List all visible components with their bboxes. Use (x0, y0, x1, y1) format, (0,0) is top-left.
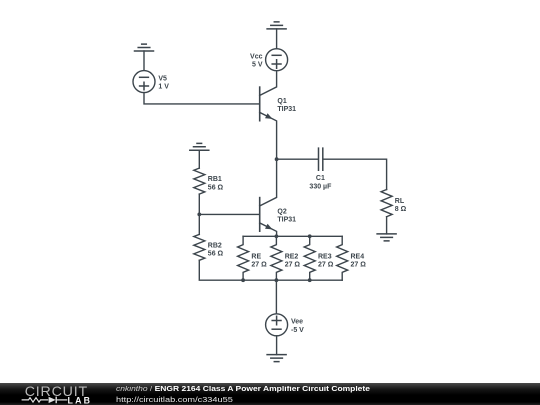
wire C1 to RL (323, 159, 386, 189)
CircuitLab logo (0, 383, 110, 405)
svg-text:RE4: RE4 (351, 253, 365, 260)
resistor RB1 56 Ohm (194, 168, 224, 194)
transistor Q1 TIP31 (260, 71, 296, 160)
svg-text:RE3: RE3 (318, 253, 332, 260)
capacitor C1 330uF (309, 148, 332, 190)
svg-text:TIP31: TIP31 (277, 106, 296, 113)
node: bottom rail at RE2/Vee (275, 278, 279, 282)
svg-text:5 V: 5 V (252, 62, 263, 69)
node: top rail at Q2 emitter (275, 234, 279, 238)
ground (below RL) (377, 217, 396, 241)
voltage source V5 (133, 71, 169, 93)
resistor RE4 27 Ohm (337, 236, 367, 280)
voltage source Vee (266, 314, 305, 336)
svg-text:V5: V5 (158, 75, 167, 82)
transistor Q2 TIP31 (260, 159, 296, 236)
resistor RB2 56 Ohm (194, 234, 224, 260)
svg-text:C1: C1 (316, 175, 325, 182)
svg-text:Vee: Vee (291, 319, 303, 326)
svg-text:RL: RL (395, 198, 405, 205)
footer title text (116, 386, 370, 393)
svg-text:56 Ω: 56 Ω (208, 251, 224, 258)
node: emitter/C1 junction (275, 157, 279, 161)
wire divider to Q2 base (199, 213, 259, 215)
node: top rail at RE3 (308, 234, 312, 238)
svg-text:Q2: Q2 (277, 208, 286, 215)
ground (below Vee) (267, 336, 286, 362)
svg-text:1 V: 1 V (158, 84, 169, 91)
resistor RL 8 Ohm (381, 190, 407, 217)
svg-text:RB1: RB1 (208, 176, 222, 183)
svg-text:27 Ω: 27 Ω (351, 262, 367, 269)
voltage source Vcc (250, 49, 288, 71)
wire V5 to Q1 base (144, 93, 260, 104)
resistor RE3 27 Ohm (304, 236, 334, 280)
svg-text:RB2: RB2 (208, 242, 222, 249)
node: base divider junction (197, 213, 201, 217)
svg-text:RE: RE (251, 253, 261, 260)
ground (above RB1) (190, 143, 209, 168)
svg-text:27 Ω: 27 Ω (285, 262, 301, 269)
resistor RE 27 Ohm (238, 236, 268, 280)
svg-text:27 Ω: 27 Ω (318, 262, 334, 269)
svg-text:8 Ω: 8 Ω (395, 206, 407, 213)
ground (above V5) (135, 44, 154, 70)
wire bottom rail to Vee (275, 280, 277, 314)
node: bottom rail at RE3 (308, 278, 312, 282)
wire bottom rail of RE bank (199, 260, 342, 280)
wire RB1 to RB2 (198, 194, 200, 234)
node: bottom rail at RE (241, 278, 245, 282)
svg-text:Q1: Q1 (277, 98, 286, 105)
ground (above Vcc) (267, 22, 286, 49)
svg-text:-5 V: -5 V (291, 327, 304, 334)
wire emitter node to C1 (277, 158, 318, 160)
svg-text:56 Ω: 56 Ω (208, 184, 224, 191)
wire top rail of RE bank (243, 235, 342, 237)
footer url text (116, 395, 233, 404)
resistor RE2 27 Ohm (271, 236, 301, 280)
svg-text:Vcc: Vcc (250, 53, 263, 60)
svg-text:TIP31: TIP31 (277, 216, 296, 223)
svg-text:330 µF: 330 µF (309, 184, 332, 191)
svg-text:27 Ω: 27 Ω (251, 262, 267, 269)
svg-text:LAB: LAB (68, 396, 91, 405)
svg-text:RE2: RE2 (285, 253, 299, 260)
